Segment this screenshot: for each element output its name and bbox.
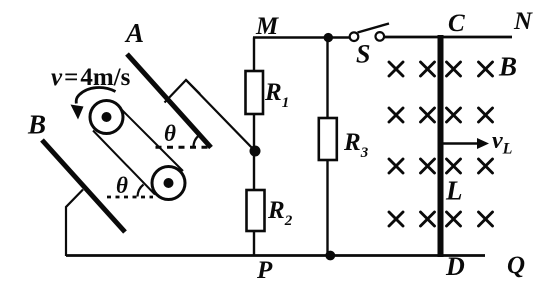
belt lower line: [93, 131, 155, 195]
support bracket under incline A: [165, 80, 201, 103]
belt upper line: [121, 109, 184, 172]
pulley P2: [152, 167, 185, 200]
incline B: [42, 140, 125, 232]
resistor R2: [247, 190, 293, 231]
resistor R3: [319, 118, 369, 161]
svg-text:N: N: [513, 8, 533, 35]
velocity arrow vL: [443, 128, 513, 158]
angle θ upper (near incline A foot): [156, 121, 214, 147]
svg-text:θ: θ: [164, 121, 176, 146]
pulley P1: [90, 101, 123, 134]
svg-text:S: S: [356, 40, 370, 69]
svg-text:θ: θ: [116, 173, 128, 198]
svg-text:B: B: [27, 110, 46, 140]
magnetic field region B (x marks): [389, 62, 493, 226]
svg-text:P: P: [256, 257, 273, 284]
rod L: [438, 35, 463, 257]
svg-text:L: L: [445, 176, 463, 206]
switch S: [350, 24, 389, 69]
angle θ lower (near pulley P2): [107, 173, 153, 198]
svg-text:C: C: [448, 10, 465, 37]
wire from support to node J1: [186, 80, 255, 151]
wire left branch M-P: [253, 38, 255, 256]
wire bottom rail P to D to Q: [66, 254, 485, 257]
support bracket under incline B: [66, 190, 83, 257]
svg-text:D: D: [445, 252, 465, 281]
svg-text:B: B: [498, 52, 517, 82]
wire top rail switch to N: [384, 36, 512, 39]
node junction bottom (R3 tap): [325, 251, 335, 261]
svg-text:M: M: [255, 13, 279, 40]
wire top rail M to switch: [253, 36, 350, 39]
rotation arrow (counterclockwise): [71, 88, 116, 120]
svg-text:Q: Q: [507, 252, 525, 279]
node J1 (R1-R2 junction): [250, 146, 261, 157]
incline A: [127, 54, 211, 148]
resistor R1: [246, 71, 290, 114]
node junction top (R3 tap): [324, 33, 333, 42]
wire R3 branch: [326, 38, 328, 256]
svg-text:A: A: [124, 18, 144, 48]
